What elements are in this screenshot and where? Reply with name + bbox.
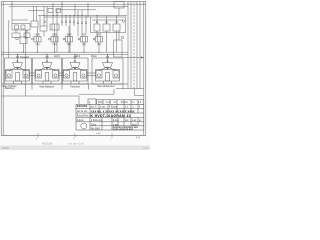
svg-text:x xx xxx x 1 of 1: x xx xxx x 1 of 1: [68, 144, 85, 146]
svg-text:4/11/2018: 4/11/2018: [42, 144, 53, 146]
svg-text:7-4: 7-4: [136, 136, 140, 140]
